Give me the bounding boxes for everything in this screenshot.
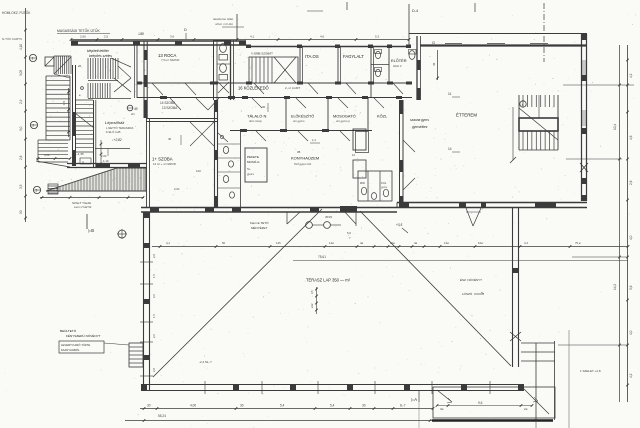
room: sauna square upper [353,129,369,153]
svg-text:16 KÖZLEKEDŐ: 16 KÖZLEKEDŐ [238,86,269,91]
text: axis handwritten 40 [138,32,144,36]
wall: elotere west wall [388,46,390,83]
svg-text:5x-: 5x- [247,167,251,171]
svg-text:55,24: 55,24 [158,414,166,418]
room label: 1 SZOBA [152,157,176,167]
dimension line: right vertical chain inner [613,45,621,402]
wall: east wall of building [582,34,587,201]
svg-text:45: 45 [432,62,436,66]
marker: centerline top right [543,3,545,62]
svg-text:4,60: 4,60 [44,153,50,157]
wc: top wc cells [371,50,389,77]
svg-text:3,5: 3,5 [310,290,314,294]
svg-text:14: 14 [448,147,452,151]
line: porch diagonal right [524,389,549,414]
svg-text:1 SZELET +2,8: 1 SZELET +2,8 [580,369,601,373]
wall: centre block west wall [231,40,234,100]
text: stairwell handwritten note [87,49,112,58]
wall: wc cells west wall [371,46,374,98]
marker: circled 4 at stair [520,101,526,107]
svg-text:4,0: 4,0 [629,330,633,335]
dim: porch vertical dash [419,402,536,428]
svg-text:D-4: D-4 [412,9,418,13]
svg-text:2,9: 2,9 [19,99,23,104]
svg-text:1,5: 1,5 [152,274,156,278]
svg-text:3,0: 3,0 [19,126,23,131]
marker: section arrow B [87,214,94,233]
svg-text:3ø: 3ø [440,407,444,411]
wall: corridor line above lepcsohaz [95,149,130,157]
svg-text:4,00: 4,00 [190,404,196,408]
svg-text:-2,4 52,-7: -2,4 52,-7 [199,360,212,364]
dimension line: terrace second chain [293,255,628,261]
svg-text:1,5: 1,5 [152,314,156,318]
door: centre corridor swings upper [254,83,403,94]
wall: kitchen rooms divider 3 [367,98,369,131]
svg-text:5,3: 5,3 [375,35,380,39]
text: bottom-left room note [72,201,92,209]
wall: stairwell south wall [67,164,147,168]
svg-text:3: 3 [35,189,37,193]
wall: elotere east wall thick [417,36,421,100]
room label: MOSOGATO [333,114,356,124]
symbol: circled axis mark 2 [30,121,38,128]
bath: service strip lower fixture column [218,131,241,207]
svg-text:MOSÓ-G: MOSÓ-G [247,159,260,164]
svg-text:ÉSZ. NŐVÉNYT: ÉSZ. NŐVÉNYT [460,277,482,282]
svg-text:13 SZOBA: 13 SZOBA [162,106,178,110]
svg-text:KŰL: KŰL [381,180,387,185]
svg-text:LEVERT KARÓ TŰZTE: LEVERT KARÓ TŰZTE [61,342,90,347]
stair: middle lower flight treads [88,83,131,99]
wc: kitchen wc block [358,171,392,201]
text: top-left annotation [2,10,31,41]
door: room1 interior swing [190,122,214,146]
svg-text:3,5: 3,5 [19,184,23,189]
marker: section arrow A [411,390,419,402]
wall: etterem divider wall [400,100,404,207]
svg-text:1: 1 [32,57,34,61]
text: etterem handwritten note [410,118,429,129]
svg-text:2,8: 2,8 [152,254,156,258]
svg-text:Lépcsőház: Lépcsőház [105,120,124,125]
svg-text:3,6: 3,6 [629,285,633,290]
svg-text:2m: 2m [130,112,136,116]
svg-text:ELŐKÉSZÍTŐ: ELŐKÉSZÍTŐ [291,114,314,119]
svg-text:2,6: 2,6 [629,180,633,185]
svg-text:tavüzemo üzlet: tavüzemo üzlet [213,17,233,21]
svg-text:14ø: 14ø [329,241,334,245]
door: centre corridor swings lower [252,98,384,108]
wall: terrace east colonnade [510,208,521,367]
room label: ITALOS [305,54,319,59]
post: terrace twin posts [306,215,341,228]
dim: kitchen small marks [262,103,356,157]
text: LEPCSOHAZ label [105,120,133,134]
wall: corridor north wall left [137,82,246,85]
svg-text:2,04: 2,04 [174,187,180,191]
dimension line: right connector y345 [558,344,628,346]
dim: room1 small marks [168,135,201,191]
symbol: circled mark below building [117,229,127,239]
svg-text:TÁLALÓ N: TÁLALÓ N [247,114,266,119]
room: sauna square lower [353,160,366,178]
wall: room1 east wall thick [215,100,218,207]
svg-text:4ø: 4ø [360,241,364,245]
svg-text:4ø: 4ø [414,241,418,245]
svg-text:10,4: 10,4 [613,124,617,130]
dimension line: bottom chain lower [125,414,433,422]
stair: lower-left return flight [36,140,70,167]
svg-text:14 m² + s² NAPOK: 14 m² + s² NAPOK [153,162,176,166]
wall: fagylalt west wall [338,46,341,83]
room label: corridor 16 KOZLEKEDO [238,86,300,91]
wall: kitchen rooms divider 2 [327,98,329,131]
stair: east return flight [75,100,96,168]
dim: west small chain [36,153,71,160]
wall: corridor north wall centre [230,82,412,85]
room label: ETTEREM [456,113,477,118]
marker: top edge registration marks [307,2,475,12]
wall: north wall left wing [71,41,246,45]
wall: corridor south wall left [137,96,246,99]
svg-text:4,2: 4,2 [629,73,633,78]
dimension line: right connector y159 [566,158,622,160]
room label: FAGYLALT [343,54,364,59]
svg-text:5,4: 5,4 [330,404,335,408]
stair: top entry treads [54,56,71,74]
text: planting note block [59,328,129,353]
svg-text:2,8: 2,8 [152,368,156,372]
svg-text:▷A: ▷A [411,397,417,402]
svg-text:75,61: 75,61 [318,255,326,259]
svg-text:50: 50 [222,241,226,245]
room label: KOZL [377,114,388,119]
svg-text:2,5: 2,5 [104,35,109,39]
svg-text:2,6: 2,6 [19,155,23,160]
svg-text:90: 90 [19,210,23,214]
dimension line: right connector y257 [572,256,628,258]
text: esz novenyt note [460,277,484,296]
svg-text:PEKETE: PEKETE [247,155,259,159]
svg-text:3,6: 3,6 [170,35,175,39]
svg-text:7,5 m² NAPOK: 7,5 m² NAPOK [161,58,180,62]
post: terrace west top corner block [144,212,150,218]
svg-text:45/45: 45/45 [325,215,332,219]
svg-text:2,04: 2,04 [101,154,107,158]
stair: north-west landing box [45,57,54,66]
svg-text:4,4: 4,4 [524,241,528,245]
svg-text:D: D [184,27,187,32]
svg-text:4,6: 4,6 [629,135,633,140]
svg-text:4,1: 4,1 [166,241,170,245]
svg-text:HOMLOKZ. FÜTŐK: HOMLOKZ. FÜTŐK [2,10,31,15]
svg-text:1,2: 1,2 [312,138,316,142]
text: 1 emelet note [580,369,601,373]
marker: section mark D-4 [409,4,418,46]
svg-text:KONYHAÜZEM: KONYHAÜZEM [291,156,319,161]
stair: small stair outside west wall [129,343,143,367]
svg-text:4,10: 4,10 [19,44,23,50]
svg-text:ÉTTEREM: ÉTTEREM [456,113,477,118]
stair: etterem staircase [510,95,558,163]
door: terrace entrance swing [466,208,481,226]
room label: KONYHAUZEM [291,150,319,166]
svg-text:2,-x² LGMT: 2,-x² LGMT [285,86,300,90]
line: porch right faint vertical [568,330,570,428]
svg-text:14,2: 14,2 [613,284,617,290]
structure: bottom right porch box [433,387,555,418]
wall: porch thick base [432,419,553,421]
svg-text:45: 45 [168,137,172,141]
wall: stairwell west wall [72,65,76,166]
door: room13 door swings [152,83,196,95]
wall: kitchen rooms divider 1 [285,98,287,131]
svg-text:40: 40 [134,107,138,111]
svg-text:3,05: 3,05 [19,70,23,76]
svg-text:~1,35: ~1,35 [76,152,84,156]
stair: west long flight [46,74,70,140]
stair: east exterior stair [521,341,555,420]
svg-text:WC: WC [360,181,366,185]
svg-text:Lem LYukTől: Lem LYukTől [74,205,92,209]
text: stair strip marks [77,64,83,97]
svg-text:145: 145 [276,241,281,245]
svg-text:9,6: 9,6 [478,401,483,405]
dimension line: left vertical chain [19,8,27,222]
dimension line: left secondary chain [62,88,70,137]
svg-text:K ELŐ 4,25: K ELŐ 4,25 [106,129,121,134]
svg-text:35: 35 [297,150,301,154]
svg-text:20: 20 [77,64,82,68]
svg-text:8,-7: 8,-7 [400,404,406,408]
wall: etterem stair south return [519,149,558,151]
svg-text:⌹40: ⌹40 [138,32,144,36]
text: top dimension caption [57,28,110,34]
wall: north wall right wing [409,34,587,46]
line: terrace diagonal right [360,211,511,366]
door: kitchen terrace door leaf [343,210,356,224]
svg-text:75,ø: 75,ø [575,241,581,245]
dimension line: bottom chain upper [140,404,434,410]
svg-text:ø12: ø12 [310,303,314,308]
bath: service strip upper [214,40,231,100]
svg-text:1,5: 1,5 [62,100,66,105]
svg-text:FAGYLALT: FAGYLALT [343,54,364,59]
door: corridor door swings left [170,98,219,110]
text: level mark +2,85 [112,138,122,142]
svg-text:16ø: 16ø [390,241,395,245]
wall: south wall east part [397,203,587,208]
wall: room1 north wall [146,119,217,122]
svg-text:ITA.OS: ITA.OS [305,54,319,59]
wc: elotere fixture [409,50,417,60]
svg-text:2,0: 2,0 [152,334,156,338]
svg-text:BEÜLTETŐ: BEÜLTETŐ [60,328,77,333]
svg-text:FÉNYSZERŰ NÖVÉNYT: FÉNYSZERŰ NÖVÉNYT [66,333,101,338]
symbol: circled axis mark 1 [29,54,37,61]
svg-text:30: 30 [147,404,151,408]
room label: TALALO [247,114,266,124]
marker: G column line [432,40,439,80]
svg-text:45: 45 [262,105,266,109]
svg-text:4,1: 4,1 [250,35,255,39]
svg-text:szauna gyors: szauna gyors [410,118,429,122]
wall: italos west wall [300,46,303,83]
svg-text:30: 30 [240,404,244,408]
wall: kitchen rooms south wall [230,129,372,132]
svg-text:4,0: 4,0 [629,235,633,240]
svg-text:gyorsétkez: gyorsétkez [412,125,428,129]
wall: room1 west wall [147,118,150,207]
window: east wall glazing marks [580,60,588,172]
svg-text:2,0: 2,0 [152,294,156,298]
wall: terrace south colonnade [141,381,524,394]
stair: middle flight cross arrows [114,66,131,92]
dim: vertical 50-7 under door [347,210,356,240]
svg-text:urbél. ml.l-ldó: urbél. ml.l-ldó [215,22,233,26]
wall: terrace west colonnade [140,212,156,390]
svg-text:+3,5: +3,5 [396,223,403,227]
svg-text:om gyors p: om gyors p [336,119,350,123]
dim: stairwell inner marks [76,140,109,168]
dimension line: right vertical chain outer [626,45,633,402]
line: terrace diagonal left [153,209,322,377]
svg-text:5x4 gyors tűz: 5x4 gyors tűz [294,162,312,166]
svg-text:16ø: 16ø [478,241,483,245]
svg-text:4,2: 4,2 [629,373,633,378]
symbol: circled 40 mark [127,105,138,116]
svg-text:1+ SZOBA: 1+ SZOBA [152,157,173,162]
room label: 13 SZOBA [158,53,180,62]
svg-text:MÉNYÉZET: MÉNYÉZET [251,225,268,230]
wall: room13 west wall [135,45,138,98]
svg-text:N-TŰK KARTS: N-TŰK KARTS [2,36,22,41]
room label: ELOTER [391,58,407,68]
svg-text:FAANYAGBÓL: FAANYAGBÓL [61,347,80,352]
svg-text:G: G [432,40,435,45]
door: west terrace door swing [287,212,300,224]
svg-text:ELŐTÉR: ELŐTÉR [391,58,407,63]
svg-text:TERASZ LAP 350 — m²: TERASZ LAP 350 — m² [306,278,351,283]
dimension line: right connector y85 [563,84,634,86]
room label: ELOKESZITO [291,114,314,124]
dimension line: top horizontal chain [70,35,411,41]
svg-text:½ EMB SZOBÁT: ½ EMB SZOBÁT [251,52,273,56]
stair: south-west wide exterior stair [40,168,146,199]
svg-text:LŐSZŐ: LŐSZŐ [462,291,473,296]
door: kitchen rooms door swings [256,131,350,141]
dimension line: terrace upper chain [152,241,629,248]
stair: half-storey stair room [249,52,298,84]
wall: stairwell east wall [144,41,147,118]
dim: etterem mark 14 [448,147,460,152]
svg-text:kiépített tetőtér: kiépített tetőtér [87,49,110,53]
svg-text:12: 12 [352,153,356,157]
svg-text:5,4: 5,4 [280,404,285,408]
symbol: circled axis mark 3 [33,186,41,193]
stair: small step block at triangle tip [48,184,58,194]
svg-text:▷B: ▷B [88,228,94,233]
svg-text:5,0: 5,0 [347,231,351,235]
svg-text:MOSOGATÓ: MOSOGATÓ [333,114,356,119]
svg-text:om gyors: om gyors [293,119,305,123]
svg-text:2: 2 [32,124,34,128]
text: kiemelt teto note [250,220,269,230]
room label: 14 SZOBA pair [160,101,178,110]
door: etterem divider swings [403,140,415,190]
text: terrace area label [306,278,351,283]
wall: south wall west part [141,203,397,213]
svg-text:↓+2,82: ↓+2,82 [112,138,122,142]
svg-text:KŐZL: KŐZL [377,114,388,119]
marker: axis letter D [184,27,187,39]
svg-text:tükör tr: tükör tr [393,64,403,68]
svg-text:4,6: 4,6 [320,35,325,39]
svg-text:MAGASSÁGI TETŐK ÜTŰK: MAGASSÁGI TETŐK ÜTŰK [57,28,100,33]
svg-text:1,10: 1,10 [103,159,109,163]
dim: terrace vertical mini chain [310,287,318,314]
text: terrace bottom small dims [199,360,212,364]
stair: middle upper flight treads [88,58,131,81]
line: porch diagonal left [437,390,452,403]
svg-text:2,60: 2,60 [80,35,86,39]
wall: corridor south wall centre [230,96,412,99]
dim: porch box inner chain [436,401,534,411]
svg-text:30: 30 [362,404,366,408]
wall: north wall centre rooms [246,45,411,49]
room: fekete mosogato box [245,148,267,182]
text: handwritten +35 near door [396,223,408,233]
dim: etterem mark 11 [448,92,460,97]
svg-text:2ø: 2ø [524,407,528,411]
marker: axis flag over stair room [213,14,244,40]
svg-text:gyors: gyors [247,172,254,176]
